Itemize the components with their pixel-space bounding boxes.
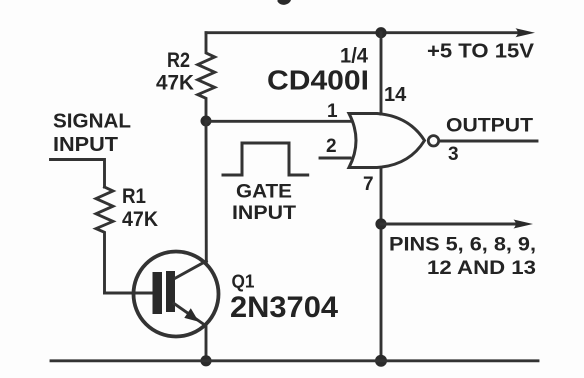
node: junction pin 7 / pins bus xyxy=(375,218,386,229)
wire: pins 5,6,8,9,12,13 bus xyxy=(381,223,517,226)
svg-text:GATE: GATE xyxy=(236,182,292,203)
svg-text:Q1: Q1 xyxy=(232,272,255,292)
svg-text:+5 TO 15V: +5 TO 15V xyxy=(427,41,535,63)
svg-text:INPUT: INPUT xyxy=(232,203,296,224)
svg-text:2: 2 xyxy=(326,136,337,157)
svg-text:R1: R1 xyxy=(122,185,146,208)
wire: pin 7 vertical xyxy=(380,168,383,361)
wire: signal input xyxy=(51,160,105,188)
node: supply junction over pin 14 xyxy=(375,27,386,38)
svg-text:PINS 5, 6, 8, 9,: PINS 5, 6, 8, 9, xyxy=(389,234,536,256)
svg-text:SIGNAL: SIGNAL xyxy=(53,111,131,133)
cropped caption glyph (top edge) xyxy=(278,0,292,5)
svg-text:CD400I: CD400I xyxy=(267,65,369,96)
svg-text:14: 14 xyxy=(384,84,407,106)
transistor Q1 circle xyxy=(134,252,219,337)
transistor Q1 collector stroke xyxy=(176,261,207,278)
transistor Q1 base bar left xyxy=(153,272,163,314)
node: junction R2 / pin 1 / collector xyxy=(201,116,212,127)
svg-text:INPUT: INPUT xyxy=(53,134,118,156)
svg-text:12 AND 13: 12 AND 13 xyxy=(427,257,536,279)
arrowhead: supply rail xyxy=(516,28,536,37)
op-amp U1 NOR gate 1/4 CD4001 xyxy=(349,114,425,168)
svg-text:OUTPUT: OUTPUT xyxy=(446,116,533,137)
gate inverting bubble (pin 3) xyxy=(428,136,438,146)
wire: base lead xyxy=(105,292,155,295)
transistor Q1 emitter stroke xyxy=(174,304,204,325)
svg-text:47K: 47K xyxy=(122,208,158,231)
svg-text:1: 1 xyxy=(327,101,338,122)
wire: output xyxy=(440,140,538,143)
wire: top supply rail xyxy=(206,31,519,34)
svg-text:3: 3 xyxy=(448,144,459,165)
wire: pin 1 input xyxy=(206,120,351,123)
wire: collector vertical xyxy=(205,121,208,262)
svg-text:47K: 47K xyxy=(156,72,194,95)
arrowhead: pins bus xyxy=(514,220,534,229)
wire: bottom ground rail xyxy=(51,359,538,362)
node: emitter / ground rail junction xyxy=(200,355,211,366)
wire: emitter vertical xyxy=(205,325,208,361)
transistor Q1 base bar right xyxy=(166,271,175,312)
svg-text:7: 7 xyxy=(363,174,374,195)
node: pin7 / ground rail junction xyxy=(375,355,387,367)
arrowhead: emitter xyxy=(184,308,199,322)
svg-text:2N3704: 2N3704 xyxy=(230,291,338,324)
gate input pulse waveform xyxy=(223,143,308,175)
resistor R2 47K xyxy=(198,33,215,121)
wire: pin 2 stub xyxy=(320,157,350,160)
svg-text:R2: R2 xyxy=(167,49,190,72)
wire: pin 14 vertical xyxy=(380,33,383,114)
resistor R1 47K xyxy=(96,187,113,293)
